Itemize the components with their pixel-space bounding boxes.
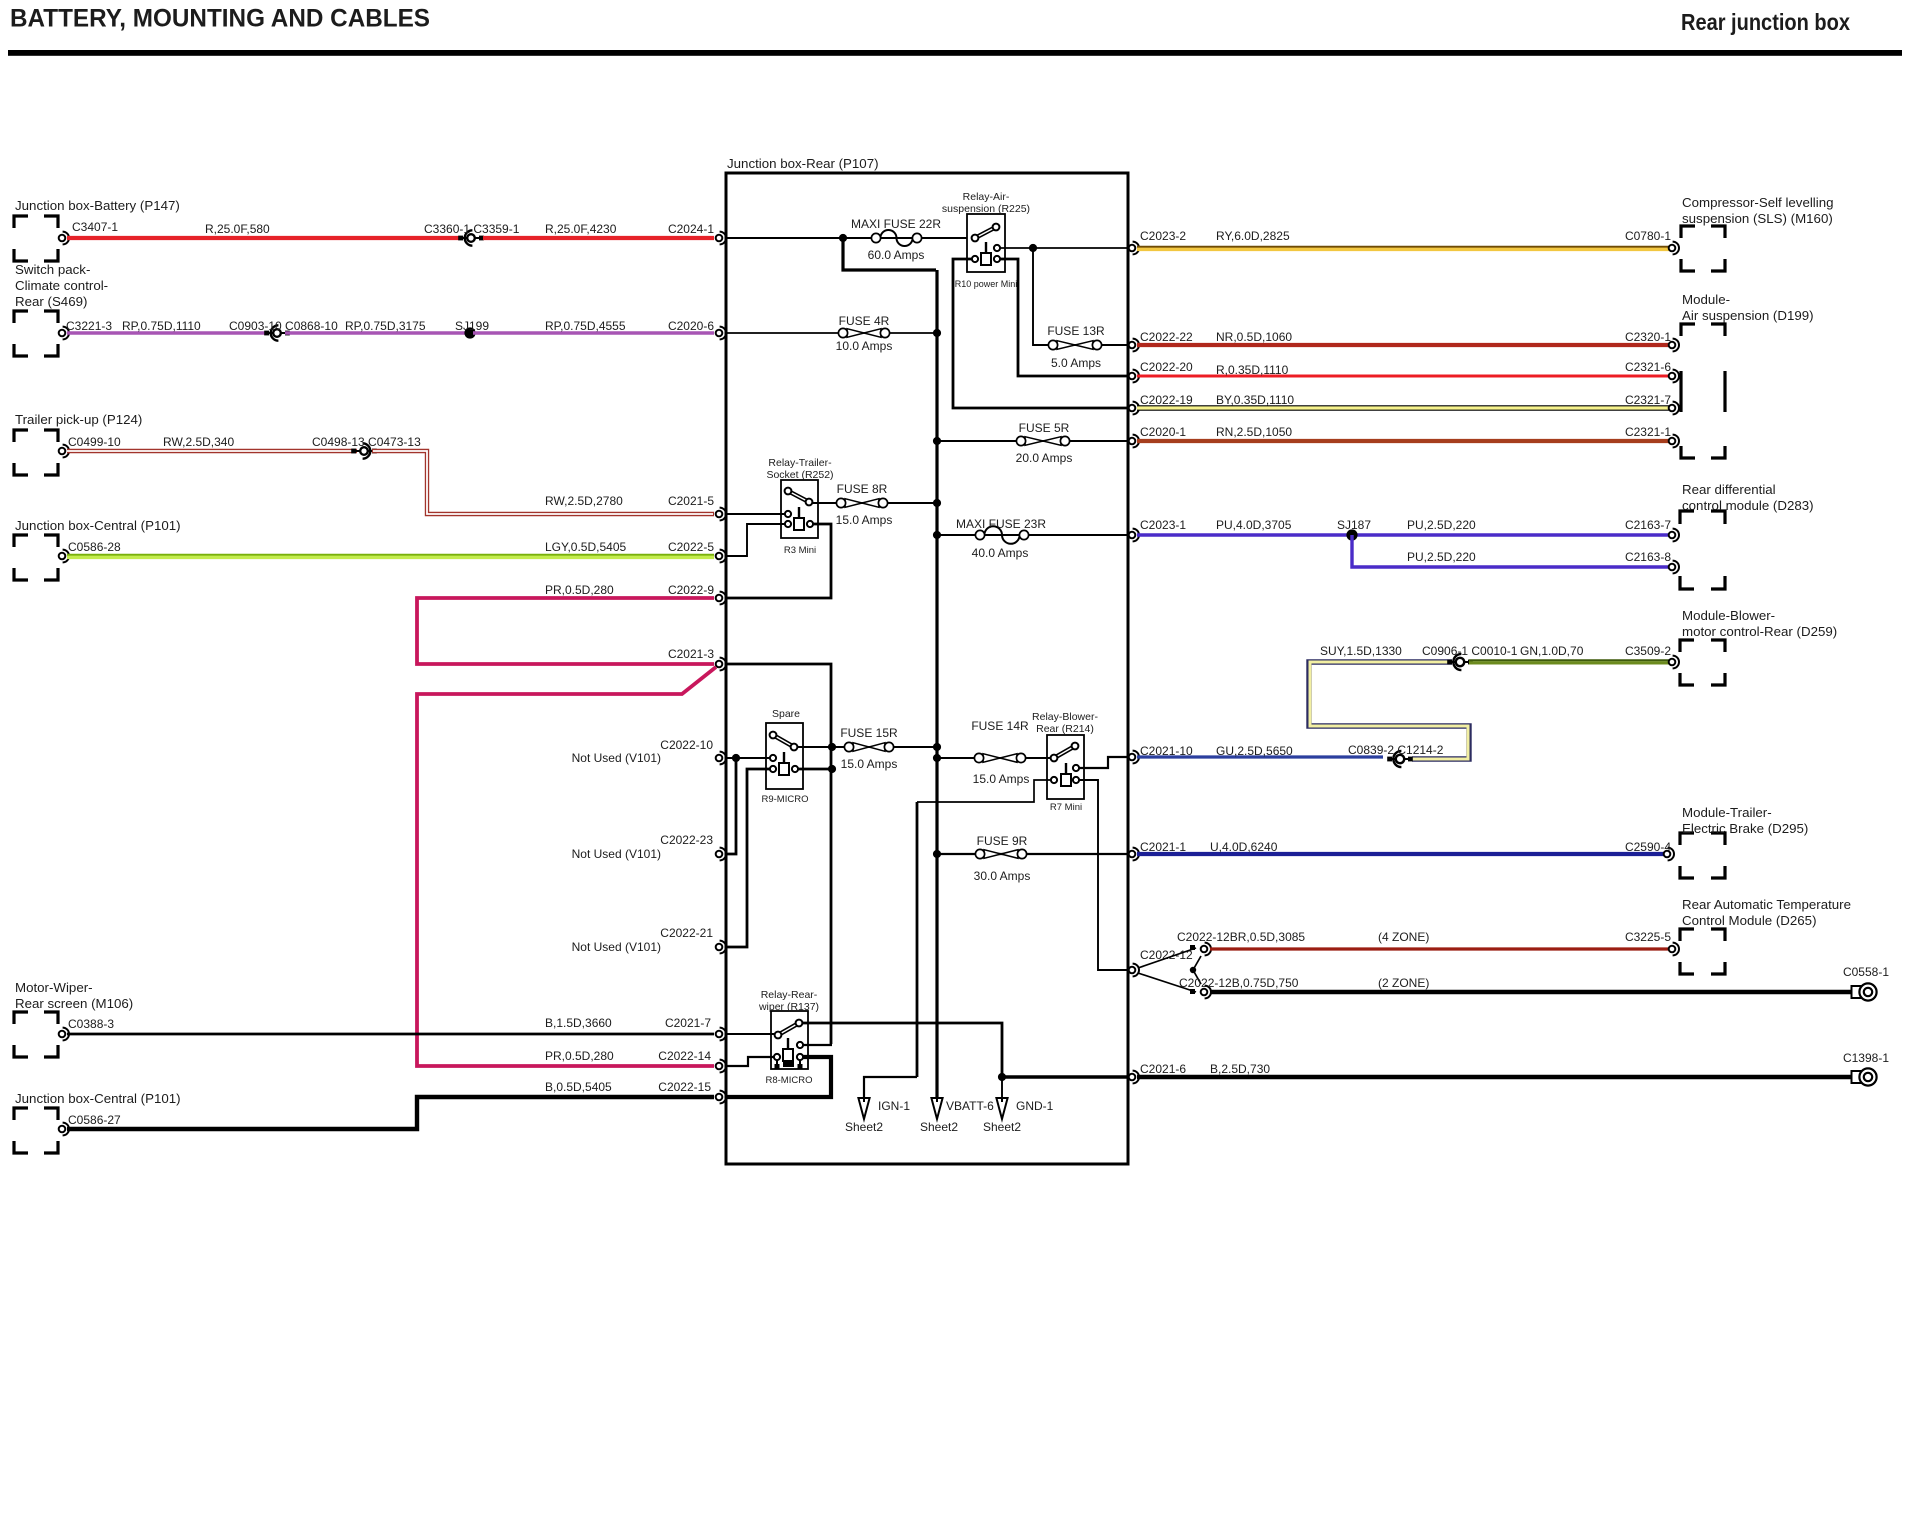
fuse FUSE 9R xyxy=(974,834,1031,883)
pin C2022-14 xyxy=(658,1049,726,1072)
relay R9 coil xyxy=(770,752,798,775)
svg-text:C2022-5: C2022-5 xyxy=(668,540,714,554)
pin C0499-10 xyxy=(59,435,121,457)
svg-text:SJ199: SJ199 xyxy=(455,319,489,333)
svg-text:LGY,0.5D,5405: LGY,0.5D,5405 xyxy=(545,540,627,554)
svg-text:FUSE 15R: FUSE 15R xyxy=(840,726,898,740)
junction dot fuse 14R at bus xyxy=(933,754,941,762)
wire R225 output branch down to fuse 13R xyxy=(1033,248,1048,345)
wire GU,2.5D,5650 xyxy=(1137,744,1383,758)
wire IGN-1 drop xyxy=(864,1077,917,1098)
splice SJ199 xyxy=(455,319,489,339)
pin C3221-3 xyxy=(59,319,113,339)
wire SUY,1.5D,1330 xyxy=(1309,644,1469,759)
junction dot C2022-10 xyxy=(732,754,740,762)
splice SJ187 xyxy=(1337,518,1371,541)
pin C0388-3 xyxy=(59,1017,115,1040)
svg-text:U,4.0D,6240: U,4.0D,6240 xyxy=(1210,840,1278,854)
relay R137 coil xyxy=(774,1038,803,1061)
svg-text:RN,2.5D,1050: RN,2.5D,1050 xyxy=(1216,425,1292,439)
wire C2021-7 into R137 xyxy=(726,1033,774,1035)
svg-text:B,2.5D,730: B,2.5D,730 xyxy=(1210,1062,1270,1076)
main VBATT bus vertical xyxy=(935,270,938,1098)
svg-text:Junction box-Central (P101): Junction box-Central (P101) xyxy=(15,1091,181,1106)
svg-text:PR,0.5D,280: PR,0.5D,280 xyxy=(545,1049,614,1063)
wire C2022-5 to R252 coil xyxy=(726,524,785,556)
svg-text:C0388-3: C0388-3 xyxy=(68,1017,114,1031)
pin C3407-1 xyxy=(59,220,119,244)
connector box M106 Motor-Wiper-Rear screen xyxy=(14,980,133,1057)
connector box S469 Switch pack-Climate control-Rear xyxy=(14,262,108,356)
pin C2022-10 not used xyxy=(572,738,726,765)
pin C2023-2 xyxy=(1129,229,1187,254)
pin C0586-27 xyxy=(59,1113,121,1135)
svg-text:C2020-6: C2020-6 xyxy=(668,319,714,333)
pin C2021-10 xyxy=(1129,744,1193,763)
wire RW,2.5D,2780 xyxy=(372,451,714,514)
pin C2022-12 xyxy=(1129,948,1193,976)
svg-text:(2 ZONE): (2 ZONE) xyxy=(1378,976,1429,990)
wire LGY,0.5D,5405 xyxy=(67,540,714,557)
svg-text:C2022-19: C2022-19 xyxy=(1140,393,1193,407)
svg-text:FUSE 8R: FUSE 8R xyxy=(837,482,888,496)
svg-text:Sheet2: Sheet2 xyxy=(845,1120,883,1134)
fuse MAXI FUSE 22R xyxy=(851,217,941,262)
wire C2022-12BR,0.5D,3085 xyxy=(1177,930,1669,949)
svg-text:Control Module (D265): Control Module (D265) xyxy=(1682,913,1817,928)
svg-text:MAXI FUSE 23R: MAXI FUSE 23R xyxy=(956,517,1046,531)
svg-text:C2022-20: C2022-20 xyxy=(1140,360,1193,374)
pin C2023-1 xyxy=(1129,518,1187,541)
wire GND-1 drop xyxy=(1001,1077,1003,1098)
wire GN,1.0D,70 xyxy=(1469,644,1669,663)
junction box P107 outline xyxy=(726,156,1128,1164)
svg-text:Relay-Rear-: Relay-Rear- xyxy=(761,989,818,1001)
wire U,4.0D,6240 xyxy=(1137,840,1664,854)
relay R214 pin 87 xyxy=(1073,765,1079,771)
connector box P147 Junction box-Battery xyxy=(14,198,180,261)
wire C2021-6 internal xyxy=(1002,1075,1128,1078)
relay R225 coil xyxy=(972,242,1000,265)
svg-text:C2024-1: C2024-1 xyxy=(668,222,714,236)
svg-text:C2022-10: C2022-10 xyxy=(660,738,713,752)
pin C2020-6 xyxy=(668,319,726,339)
title BATTERY, MOUNTING AND CABLES xyxy=(10,6,430,33)
wire C2021-5 into R252 xyxy=(726,513,785,515)
ring terminal C0558-1 xyxy=(1843,965,1889,1001)
svg-text:C0780-1: C0780-1 xyxy=(1625,229,1671,243)
relay R225 pin 87 xyxy=(994,245,1000,251)
wire PU,4.0D,3705 xyxy=(1137,518,1669,535)
junction dot fuse 9R at bus xyxy=(933,850,941,858)
wire R137 coil right to C2022-15 xyxy=(726,1057,831,1097)
connector C0903-10 C0868-10 xyxy=(229,319,338,341)
svg-text:Rear screen (M106): Rear screen (M106) xyxy=(15,996,133,1011)
svg-text:Relay-Trailer-: Relay-Trailer- xyxy=(768,457,832,469)
svg-text:C2023-2: C2023-2 xyxy=(1140,229,1186,243)
relay R225 Relay-Air-suspension xyxy=(942,191,1030,289)
relay R252 Relay-Trailer-Socket xyxy=(766,457,833,556)
fuse MAXI FUSE 23R xyxy=(956,517,1046,560)
relay R214 switch arm xyxy=(1051,743,1079,762)
svg-text:30.0 Amps: 30.0 Amps xyxy=(974,869,1031,883)
svg-text:BATTERY, MOUNTING AND CABLES: BATTERY, MOUNTING AND CABLES xyxy=(10,6,430,33)
svg-text:C2163-7: C2163-7 xyxy=(1625,518,1671,532)
svg-text:5.0 Amps: 5.0 Amps xyxy=(1051,356,1101,370)
svg-text:C2320-1: C2320-1 xyxy=(1625,330,1671,344)
svg-text:B,1.5D,3660: B,1.5D,3660 xyxy=(545,1016,612,1030)
svg-text:C2021-6: C2021-6 xyxy=(1140,1062,1186,1076)
pin C2022-22 xyxy=(1129,330,1193,351)
pin C2021-1 xyxy=(1129,840,1187,860)
wire IGN feed vertical xyxy=(916,802,919,1077)
svg-text:Motor-Wiper-: Motor-Wiper- xyxy=(15,980,93,995)
sheet arrow IGN-1 xyxy=(845,1098,910,1134)
svg-text:C2022-12BR,0.5D,3085: C2022-12BR,0.5D,3085 xyxy=(1177,930,1305,944)
relay R137 Relay-Rear-wiper xyxy=(758,989,819,1086)
svg-text:Relay-Blower-: Relay-Blower- xyxy=(1032,711,1098,723)
wire FUSE 4R line xyxy=(726,332,936,334)
svg-text:Rear (R214): Rear (R214) xyxy=(1036,723,1094,735)
wire R225 output to C2023-2 xyxy=(1000,247,1128,249)
svg-text:60.0 Amps: 60.0 Amps xyxy=(868,248,925,262)
svg-text:C2022-12: C2022-12 xyxy=(1140,948,1193,962)
svg-text:Rear (S469): Rear (S469) xyxy=(15,294,87,309)
junction dot fuse 4R at bus xyxy=(933,329,941,337)
svg-text:PU,2.5D,220: PU,2.5D,220 xyxy=(1407,518,1476,532)
pin C2021-5 xyxy=(668,494,726,520)
svg-text:Module-Blower-: Module-Blower- xyxy=(1682,608,1775,623)
svg-text:RP,0.75D,4555: RP,0.75D,4555 xyxy=(545,319,626,333)
pin C2021-6 xyxy=(1129,1062,1187,1083)
svg-text:C3407-1: C3407-1 xyxy=(72,220,118,234)
svg-text:40.0 Amps: 40.0 Amps xyxy=(972,546,1029,560)
wire tap down to main bus xyxy=(843,238,936,270)
svg-text:PU,2.5D,220: PU,2.5D,220 xyxy=(1407,550,1476,564)
pin C2022-19 xyxy=(1129,393,1193,414)
svg-text:Junction box-Central (P101): Junction box-Central (P101) xyxy=(15,518,181,533)
svg-text:Socket (R252): Socket (R252) xyxy=(766,469,833,481)
svg-text:SUY,1.5D,1330: SUY,1.5D,1330 xyxy=(1320,644,1402,658)
svg-text:C2020-1: C2020-1 xyxy=(1140,425,1186,439)
svg-text:C0586-28: C0586-28 xyxy=(68,540,121,554)
junction dot GND node xyxy=(998,1073,1006,1081)
module box D259 Module-Blower-motor control-Rear xyxy=(1680,608,1837,685)
header rule xyxy=(8,50,1902,56)
pin C2020-1 xyxy=(1129,425,1187,447)
junction dot R225 output xyxy=(1029,244,1037,252)
pin C2022-23 not used xyxy=(572,833,726,861)
wire PU,2.5D,220 branch xyxy=(1352,535,1669,567)
svg-text:C2022-21: C2022-21 xyxy=(660,926,713,940)
module box M160 Compressor-Self levelling suspension xyxy=(1681,195,1834,271)
svg-text:Rear differential: Rear differential xyxy=(1682,482,1776,497)
wire C2022-14 to R137 coil xyxy=(726,1057,774,1066)
svg-text:Rear junction box: Rear junction box xyxy=(1681,9,1850,35)
svg-text:R7 Mini: R7 Mini xyxy=(1050,802,1082,813)
connector box P101 Junction box-Central upper xyxy=(14,518,181,580)
svg-text:motor control-Rear (D259): motor control-Rear (D259) xyxy=(1682,624,1837,639)
relay R9 input pin xyxy=(770,755,776,761)
module box D295 Module-Trailer-Electric Brake xyxy=(1680,805,1808,878)
svg-text:C2022-22: C2022-22 xyxy=(1140,330,1193,344)
wire R,25.0F,580 xyxy=(67,222,459,238)
svg-text:Compressor-Self levelling: Compressor-Self levelling xyxy=(1682,195,1834,210)
wire C2021-3 internal bus xyxy=(726,664,831,1044)
svg-text:C2022-23: C2022-23 xyxy=(660,833,713,847)
wire C2022-10 down to C2022-23 xyxy=(726,758,736,854)
wire C2024-1 feed to MAXI FUSE 22R xyxy=(726,237,967,239)
wire R214 coil right to C2022-12 xyxy=(1079,780,1128,970)
wire FUSE 5R line xyxy=(937,440,1128,442)
svg-text:Not Used (V101): Not Used (V101) xyxy=(572,847,661,861)
wire PR,0.5D,280 upper loop xyxy=(417,583,714,664)
svg-text:C0839-2 C1214-2: C0839-2 C1214-2 xyxy=(1348,743,1444,757)
svg-text:control module (D283): control module (D283) xyxy=(1682,498,1814,513)
pin C2590-4 xyxy=(1625,840,1674,860)
wire NR,0.5D,1060 xyxy=(1137,330,1669,345)
svg-text:GND-1: GND-1 xyxy=(1016,1099,1054,1113)
svg-text:FUSE 14R: FUSE 14R xyxy=(971,719,1029,733)
wire R252 coil right to C2022-9 xyxy=(726,524,831,598)
module box D265 Rear Automatic Temperature Control Module xyxy=(1680,897,1851,974)
wire B,1.5D,3660 xyxy=(67,1016,714,1034)
svg-text:MAXI FUSE 22R: MAXI FUSE 22R xyxy=(851,217,941,231)
relay R137 pin 87 xyxy=(797,1042,803,1048)
svg-text:Switch pack-: Switch pack- xyxy=(15,262,90,277)
svg-text:10.0 Amps: 10.0 Amps xyxy=(836,339,893,353)
fuse FUSE 13R xyxy=(1047,324,1128,370)
wire B,0.5D,5405 xyxy=(67,1080,714,1129)
ring terminal C1398-1 xyxy=(1843,1051,1889,1086)
svg-text:RY,6.0D,2825: RY,6.0D,2825 xyxy=(1216,229,1290,243)
svg-text:SJ187: SJ187 xyxy=(1337,518,1371,532)
pin C0780-1 xyxy=(1625,229,1679,254)
svg-text:15.0 Amps: 15.0 Amps xyxy=(836,513,893,527)
connector C0839-2 C1214-2 xyxy=(1348,743,1444,767)
relay R9 switch arm xyxy=(770,732,798,751)
svg-text:FUSE 4R: FUSE 4R xyxy=(839,314,890,328)
wire R9 switch out through FUSE 15R xyxy=(797,746,936,748)
svg-text:15.0 Amps: 15.0 Amps xyxy=(973,772,1030,786)
pin C2022-9 xyxy=(668,583,726,604)
connector box P124 Trailer pick-up xyxy=(14,412,142,475)
relay R137 switch arm xyxy=(775,1020,803,1039)
pin C2022-21 not used xyxy=(572,926,726,954)
svg-text:RP,0.75D,1110: RP,0.75D,1110 xyxy=(122,319,201,333)
svg-text:Spare: Spare xyxy=(772,708,800,720)
svg-text:FUSE 9R: FUSE 9R xyxy=(977,834,1028,848)
wire FUSE 14R line xyxy=(937,757,1050,759)
svg-text:C2021-5: C2021-5 xyxy=(668,494,714,508)
wire RP,0.75D,3175 xyxy=(285,319,467,333)
svg-text:C2022-15: C2022-15 xyxy=(658,1080,711,1094)
wire BY,0.35D,1110 xyxy=(1137,393,1669,408)
pin C2021-7 xyxy=(665,1016,726,1040)
pin C2163-8 xyxy=(1625,550,1679,573)
subtitle Rear junction box xyxy=(1681,9,1850,35)
svg-text:suspension (R225): suspension (R225) xyxy=(942,203,1030,215)
wire RN,2.5D,1050 xyxy=(1137,425,1669,441)
svg-text:C2021-7: C2021-7 xyxy=(665,1016,711,1030)
connector C0906-1 C0010-1 xyxy=(1422,644,1518,670)
svg-text:C0906-1 C0010-1: C0906-1 C0010-1 xyxy=(1422,644,1518,658)
svg-text:PU,4.0D,3705: PU,4.0D,3705 xyxy=(1216,518,1292,532)
wire RP,0.75D,4555 xyxy=(473,319,714,333)
pin C2021-3 xyxy=(668,647,726,670)
svg-text:C0558-1: C0558-1 xyxy=(1843,965,1889,979)
svg-text:Junction box-Battery (P147): Junction box-Battery (P147) xyxy=(15,198,180,213)
wire RY,6.0D,2825 xyxy=(1137,229,1669,249)
pin C2321-7 xyxy=(1625,393,1679,414)
wire R214 out to C2021-10 xyxy=(1079,757,1128,768)
relay R225 switch arm xyxy=(972,224,1000,242)
junction dot fuse 23R at bus xyxy=(933,531,941,539)
wire RW,2.5D,340 xyxy=(67,435,357,451)
label PU,2.5D,220 upper xyxy=(1407,518,1476,532)
pin C2022-20 xyxy=(1129,360,1193,382)
wire R252 switch out through FUSE 8R xyxy=(812,502,936,504)
wire RP,0.75D,1110 xyxy=(67,319,269,333)
pin C2024-1 xyxy=(668,222,726,244)
relay R252 switch arm xyxy=(785,488,813,506)
wire R137 pin87 to x832 xyxy=(803,1044,832,1046)
svg-text:BY,0.35D,1110: BY,0.35D,1110 xyxy=(1216,393,1294,407)
module box D199 Module-Air suspension xyxy=(1681,292,1814,458)
svg-text:VBATT-6: VBATT-6 xyxy=(946,1099,994,1113)
svg-text:C2022-12B,0.75D,750: C2022-12B,0.75D,750 xyxy=(1179,976,1299,990)
svg-text:R,25.0F,4230: R,25.0F,4230 xyxy=(545,222,617,236)
junction dot fuse 8R at bus xyxy=(933,499,941,507)
svg-text:IGN-1: IGN-1 xyxy=(878,1099,910,1113)
relay R214 coil xyxy=(1051,763,1079,786)
svg-text:Module-: Module- xyxy=(1682,292,1730,307)
pin C2163-7 xyxy=(1625,518,1679,541)
svg-text:suspension (SLS) (M160): suspension (SLS) (M160) xyxy=(1682,211,1833,226)
svg-text:C3360-1 C3359-1: C3360-1 C3359-1 xyxy=(424,222,520,236)
svg-text:Relay-Air-: Relay-Air- xyxy=(963,191,1010,203)
svg-text:C2321-1: C2321-1 xyxy=(1625,425,1671,439)
svg-text:C1398-1: C1398-1 xyxy=(1843,1051,1889,1065)
svg-text:C0586-27: C0586-27 xyxy=(68,1113,121,1127)
svg-text:C3509-2: C3509-2 xyxy=(1625,644,1671,658)
pin C0586-28 xyxy=(59,540,121,562)
junction dot at fuse 22R tap xyxy=(839,234,847,242)
svg-text:RW,2.5D,340: RW,2.5D,340 xyxy=(163,435,234,449)
junction dot fuse 15R at bus xyxy=(933,743,941,751)
svg-text:Trailer pick-up (P124): Trailer pick-up (P124) xyxy=(15,412,142,427)
svg-text:R8-MICRO: R8-MICRO xyxy=(766,1075,813,1086)
wire R9 coil right to x832 xyxy=(798,768,832,771)
splice fan C2022-12 xyxy=(1138,943,1211,999)
svg-text:C0498-13 C0473-13: C0498-13 C0473-13 xyxy=(312,435,421,449)
svg-text:RP,0.75D,3175: RP,0.75D,3175 xyxy=(345,319,426,333)
svg-text:R9-MICRO: R9-MICRO xyxy=(762,794,809,805)
svg-text:GU,2.5D,5650: GU,2.5D,5650 xyxy=(1216,744,1293,758)
wire R225 coil left to C2022-19 xyxy=(953,259,1128,408)
fuse FUSE 5R xyxy=(1016,421,1073,465)
svg-text:C3225-5: C3225-5 xyxy=(1625,930,1671,944)
wire R137 pin30 to GND node xyxy=(803,1023,1002,1077)
svg-text:C3221-3: C3221-3 xyxy=(66,319,112,333)
pin C2321-6 xyxy=(1625,360,1679,382)
svg-text:C2163-8: C2163-8 xyxy=(1625,550,1671,564)
fuse FUSE 14R xyxy=(971,719,1029,786)
svg-text:Air suspension (D199): Air suspension (D199) xyxy=(1682,308,1814,323)
wire R214 coil left to IGN feed xyxy=(917,780,1051,802)
module box D283 Rear differential control module xyxy=(1680,482,1814,589)
label PR,0.5D,280 lower xyxy=(545,1049,614,1063)
wire PR lower run xyxy=(417,667,716,1066)
svg-text:C2022-9: C2022-9 xyxy=(668,583,714,597)
svg-text:C2590-4: C2590-4 xyxy=(1625,840,1671,854)
pin C3225-5 xyxy=(1625,930,1679,955)
svg-text:C2321-6: C2321-6 xyxy=(1625,360,1671,374)
wire R,0.35D,1110 xyxy=(1137,363,1669,377)
svg-text:(4 ZONE): (4 ZONE) xyxy=(1378,930,1429,944)
relay R214 Relay-Blower-Rear xyxy=(1032,711,1098,813)
svg-text:NR,0.5D,1060: NR,0.5D,1060 xyxy=(1216,330,1292,344)
svg-text:Rear Automatic Temperature: Rear Automatic Temperature xyxy=(1682,897,1851,912)
svg-text:C2021-3: C2021-3 xyxy=(668,647,714,661)
pin C3509-2 xyxy=(1625,644,1679,668)
svg-text:Junction box-Rear (P107): Junction box-Rear (P107) xyxy=(727,156,879,171)
connector C3360-1 C3359-1 xyxy=(424,222,520,246)
wire R,25.0F,4230 xyxy=(483,222,714,238)
junction dot fuse 5R at bus xyxy=(933,437,941,445)
svg-text:Electric Brake (D295): Electric Brake (D295) xyxy=(1682,821,1808,836)
svg-text:Climate control-: Climate control- xyxy=(15,278,108,293)
connector box P101 Junction box-Central lower xyxy=(14,1091,181,1153)
svg-text:C0499-10: C0499-10 xyxy=(68,435,121,449)
svg-text:20.0 Amps: 20.0 Amps xyxy=(1016,451,1073,465)
wire C2022-21 up to R9 coil xyxy=(726,769,770,947)
svg-text:R3 Mini: R3 Mini xyxy=(784,545,816,556)
sheet arrow VBATT-6 xyxy=(920,1098,994,1134)
junction dot R9 coil at x832 xyxy=(828,765,836,773)
pin C2320-1 xyxy=(1625,330,1679,351)
connector C0498-13 C0473-13 xyxy=(312,435,421,459)
relay R252 coil xyxy=(785,507,813,530)
sheet arrow GND-1 xyxy=(983,1098,1054,1134)
svg-text:C2321-7: C2321-7 xyxy=(1625,393,1671,407)
svg-text:FUSE 5R: FUSE 5R xyxy=(1019,421,1070,435)
svg-text:Not Used (V101): Not Used (V101) xyxy=(572,751,661,765)
svg-text:Sheet2: Sheet2 xyxy=(920,1120,958,1134)
svg-text:B,0.5D,5405: B,0.5D,5405 xyxy=(545,1080,612,1094)
wire C2022-12B,0.75D,750 xyxy=(1179,976,1852,992)
svg-text:GN,1.0D,70: GN,1.0D,70 xyxy=(1520,644,1584,658)
fuse FUSE 4R xyxy=(836,314,893,353)
relay R137 micro marks xyxy=(775,1060,803,1069)
svg-text:wiper (R137): wiper (R137) xyxy=(758,1001,819,1013)
wire R225 coil right to C2022-20 xyxy=(1000,259,1128,376)
wire MAXI FUSE 23R line xyxy=(937,534,1128,536)
svg-text:C2022-14: C2022-14 xyxy=(658,1049,711,1063)
svg-text:FUSE 13R: FUSE 13R xyxy=(1047,324,1105,338)
pin C2321-1 xyxy=(1625,425,1679,447)
svg-text:Module-Trailer-: Module-Trailer- xyxy=(1682,805,1772,820)
relay R9 Spare xyxy=(762,708,809,805)
wire C2022-10 into R9 xyxy=(726,757,770,759)
svg-text:R,0.35D,1110: R,0.35D,1110 xyxy=(1216,363,1289,377)
pin C2022-15 xyxy=(658,1080,726,1103)
relay R252 input pin xyxy=(785,511,791,517)
svg-text:15.0 Amps: 15.0 Amps xyxy=(841,757,898,771)
svg-text:PR,0.5D,280: PR,0.5D,280 xyxy=(545,583,614,597)
wire B,2.5D,730 xyxy=(1137,1062,1852,1077)
svg-text:R10 power Mini: R10 power Mini xyxy=(955,279,1018,289)
